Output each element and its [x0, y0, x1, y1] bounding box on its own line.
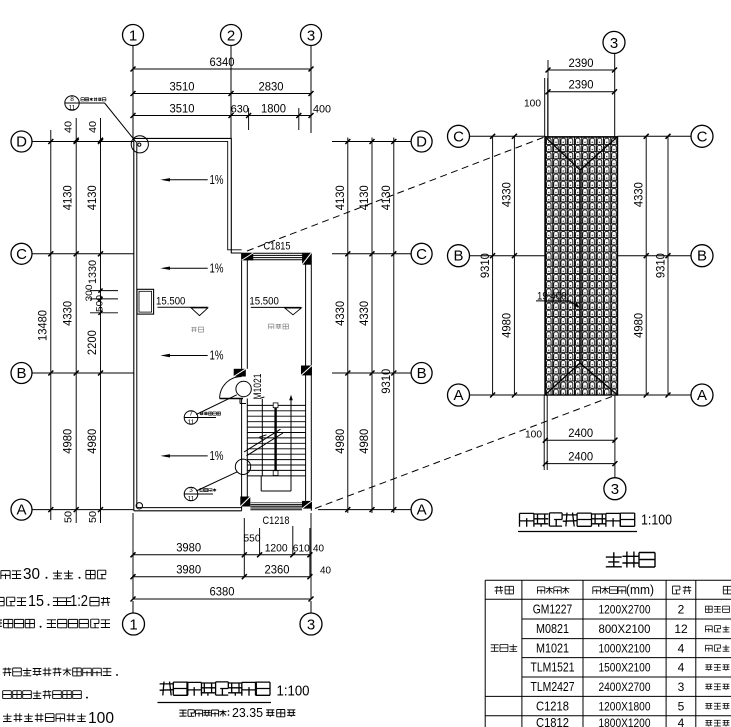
- svg-text:50: 50: [64, 511, 75, 523]
- axis circle A right-plan left: [448, 384, 470, 406]
- door-window table grid: [485, 579, 731, 581]
- svg-text:2390: 2390: [569, 58, 594, 70]
- svg-text:D: D: [416, 134, 427, 151]
- axis circle A (left): [11, 499, 32, 520]
- left dimension chain verticals: [50, 130, 52, 520]
- svg-text:2400: 2400: [568, 451, 593, 463]
- title: roof staircase plan (wuding loutijian pingmiantu): [160, 682, 175, 696]
- axis circle C right-plan right: [691, 125, 713, 147]
- detail target circle at door: [236, 381, 251, 396]
- svg-text:40: 40: [64, 121, 75, 133]
- axis circle D (right of left plan): [332, 141, 411, 143]
- svg-text:TLM2427: TLM2427: [531, 680, 575, 694]
- table title: door/window schedule (menchuangbiao): [606, 552, 622, 567]
- svg-text:4: 4: [678, 661, 685, 675]
- right plan top dims 2390: [547, 60, 549, 137]
- left sub-dim tick lines 1330/300/500: [90, 290, 118, 292]
- svg-text:40: 40: [313, 543, 324, 555]
- stair room left wall: [241, 253, 243, 369]
- svg-text:6380: 6380: [210, 587, 235, 599]
- svg-text:M1021: M1021: [252, 374, 264, 400]
- door M1021 leaf: [220, 398, 243, 400]
- svg-text:11: 11: [188, 495, 195, 502]
- svg-text:4980: 4980: [634, 313, 646, 338]
- roof parapet wall outline: [134, 138, 242, 253]
- stair landing outline: [260, 476, 262, 491]
- svg-text:M1021: M1021: [536, 641, 569, 655]
- column bottom-left: [240, 497, 250, 507]
- svg-text:100: 100: [524, 98, 541, 110]
- svg-text:B: B: [16, 365, 26, 382]
- column bottom-right: [302, 501, 312, 509]
- axis circle 3 (right plan top): [603, 31, 625, 53]
- svg-text:50: 50: [88, 511, 99, 523]
- bottom dim extension lines: [132, 513, 134, 599]
- svg-text:A: A: [453, 387, 463, 404]
- note line 1: [1, 571, 10, 580]
- slope arrow 1% (1): [168, 179, 208, 181]
- grid line 1 vertical: [132, 46, 134, 141]
- dimension row 3510/630/1800/400: [133, 115, 311, 117]
- svg-text:1200X2700: 1200X2700: [599, 602, 651, 616]
- slope arrow 1% (4): [168, 455, 208, 457]
- note line 2: [0, 597, 4, 605]
- svg-text:15: 15: [28, 593, 44, 610]
- svg-text:1330: 1330: [87, 260, 99, 284]
- svg-text:4330: 4330: [634, 182, 646, 207]
- svg-text:7: 7: [189, 411, 193, 418]
- svg-text:4130: 4130: [335, 185, 347, 210]
- right-side dim chain of left plan: [347, 138, 349, 514]
- axis circle C (left): [11, 243, 32, 264]
- svg-text:4130: 4130: [63, 185, 75, 210]
- svg-text:3980: 3980: [176, 543, 201, 555]
- svg-text:1:2: 1:2: [70, 593, 88, 610]
- grid line C: [32, 253, 134, 255]
- svg-text:1%: 1%: [210, 449, 224, 463]
- grid line 2 vertical: [230, 46, 232, 140]
- stair treads: [247, 404, 305, 406]
- detail callout 3/11: [184, 487, 198, 501]
- projection dashed line upper: [247, 137, 545, 251]
- stair room right wall: [305, 265, 307, 501]
- svg-text:1: 1: [129, 28, 137, 45]
- note line 3: [0, 620, 2, 628]
- svg-text:B: B: [697, 248, 707, 265]
- svg-text:4330: 4330: [335, 301, 347, 326]
- projection dashed line lower: [315, 397, 612, 509]
- axis circle 3 (bottom): [310, 601, 312, 613]
- roof hip lines: [545, 137, 580, 170]
- svg-text:1:100: 1:100: [641, 513, 672, 529]
- note line 5: [3, 691, 12, 699]
- svg-text:3980: 3980: [176, 564, 201, 576]
- axis circle B right-plan right: [691, 245, 713, 267]
- svg-text:100: 100: [525, 429, 542, 441]
- svg-text:1%: 1%: [210, 349, 224, 363]
- subtitle: floor area 23.35 sqm: [179, 710, 186, 716]
- table header texts: [495, 586, 503, 594]
- note line 4: [3, 668, 12, 676]
- svg-text:4980: 4980: [63, 429, 75, 454]
- svg-text:1500X2100: 1500X2100: [599, 661, 651, 675]
- window C1218 bottom wall: [250, 504, 302, 506]
- svg-text:3: 3: [307, 617, 315, 634]
- axis circle 1 (bottom): [132, 601, 134, 613]
- svg-text:GM1227: GM1227: [533, 602, 573, 616]
- svg-text:1200: 1200: [265, 543, 288, 555]
- table col1 group label putongmen: [491, 645, 499, 652]
- svg-text:4330: 4330: [502, 182, 514, 207]
- svg-text:15.500: 15.500: [156, 295, 185, 307]
- dimension row 6340: [133, 68, 311, 70]
- right plan right dim chain: [645, 136, 647, 395]
- svg-text:11: 11: [69, 104, 76, 111]
- svg-text:9310: 9310: [381, 369, 393, 394]
- svg-text:2400X2700: 2400X2700: [599, 680, 651, 694]
- svg-text:B: B: [453, 248, 463, 265]
- bottom dim row 3980/550/1200/610/40: [133, 554, 311, 556]
- svg-text:D: D: [16, 134, 27, 151]
- svg-text:630: 630: [231, 104, 249, 116]
- svg-text:A: A: [16, 502, 26, 519]
- svg-text:4: 4: [678, 641, 685, 655]
- svg-text:800X2100: 800X2100: [599, 622, 651, 636]
- title: staircase roof plan (loutijian wuding pingmiantu): [520, 513, 534, 526]
- svg-text:9310: 9310: [480, 253, 492, 278]
- door M1021 swing arc: [220, 377, 242, 399]
- dimension row 3510/2830: [133, 93, 311, 95]
- wall flue box: [137, 289, 154, 314]
- svg-text:5: 5: [678, 699, 685, 713]
- svg-text:3: 3: [678, 680, 685, 694]
- axis grid circle 1 (top): [123, 25, 144, 46]
- axis circle C (right of left plan): [332, 253, 411, 255]
- svg-text:C: C: [16, 246, 27, 263]
- svg-text:1:100: 1:100: [277, 684, 310, 700]
- axis circle C right-plan left: [448, 125, 470, 147]
- svg-text:4330: 4330: [359, 301, 371, 326]
- stair direction line up-arrow: [290, 400, 292, 476]
- svg-text:2: 2: [678, 602, 685, 616]
- slope arrow 1% (2): [168, 267, 208, 269]
- svg-text:300: 300: [84, 285, 95, 302]
- svg-text:4980: 4980: [502, 313, 514, 338]
- axis grid circle 3 (top): [301, 25, 322, 46]
- svg-text:500: 500: [95, 295, 106, 312]
- svg-text:2390: 2390: [569, 80, 594, 92]
- svg-text:3: 3: [610, 35, 618, 52]
- column mid-right at B: [301, 366, 312, 376]
- stair center railing: [274, 405, 276, 474]
- svg-text:3: 3: [189, 487, 193, 494]
- svg-text:1%: 1%: [210, 261, 224, 275]
- roof ridge line: [579, 170, 581, 363]
- svg-text:3: 3: [611, 481, 619, 498]
- svg-text:30: 30: [23, 566, 40, 583]
- svg-text:13480: 13480: [38, 310, 50, 341]
- axis circle B right-plan left: [448, 245, 470, 267]
- svg-text:M0821: M0821: [536, 622, 569, 636]
- column mid-left at B: [234, 369, 246, 377]
- svg-text:3: 3: [307, 28, 315, 45]
- svg-text:1%: 1%: [210, 173, 224, 187]
- svg-text:1200X1800: 1200X1800: [599, 699, 651, 713]
- svg-text:1800: 1800: [261, 104, 286, 116]
- svg-text:4980: 4980: [359, 429, 371, 454]
- roof drain circle top-left: [131, 136, 148, 153]
- window C1815 top wall: [242, 252, 312, 254]
- grid line A: [32, 509, 134, 511]
- svg-text:TLM1521: TLM1521: [531, 661, 575, 675]
- svg-text:A: A: [697, 387, 707, 404]
- grid line B: [32, 372, 134, 374]
- svg-text:A: A: [417, 502, 427, 519]
- svg-text:4330: 4330: [63, 301, 75, 326]
- svg-text:15.500: 15.500: [249, 295, 278, 307]
- svg-text:11: 11: [188, 419, 195, 426]
- svg-text:23.35: 23.35: [232, 705, 263, 720]
- grid line 3 vertical: [310, 46, 312, 134]
- svg-text:610: 610: [293, 543, 310, 555]
- svg-text:8: 8: [70, 96, 74, 103]
- detail target circle at stair bottom: [235, 459, 250, 474]
- svg-text:2360: 2360: [265, 564, 290, 576]
- axis circle A right-plan right: [691, 384, 713, 406]
- axis grid circle 2 (top): [221, 25, 242, 46]
- svg-text:40: 40: [88, 121, 99, 133]
- svg-text:2: 2: [227, 28, 235, 45]
- svg-text:9310: 9310: [656, 253, 668, 278]
- svg-text:B: B: [417, 365, 427, 382]
- room label roof (wuding): [191, 327, 196, 332]
- svg-text:C: C: [416, 246, 427, 263]
- svg-text:4: 4: [678, 716, 685, 727]
- svg-text:4980: 4980: [87, 429, 99, 454]
- svg-text:550: 550: [244, 533, 261, 545]
- svg-text:4980: 4980: [335, 429, 347, 454]
- right plan bottom dims: [543, 395, 545, 470]
- axis circle B (right of left plan): [332, 372, 411, 374]
- roof hip lines bottom: [545, 363, 580, 395]
- axis circle B (left): [11, 363, 32, 384]
- svg-text:3510: 3510: [170, 104, 195, 116]
- note line 6: [3, 714, 12, 722]
- svg-text:C: C: [697, 128, 708, 145]
- svg-text:400: 400: [313, 104, 331, 116]
- detail callout 8/11: [65, 96, 79, 110]
- roof drain circle bottom-left: [136, 503, 142, 509]
- svg-text:(mm): (mm): [626, 583, 654, 597]
- stair break line: [244, 429, 281, 452]
- svg-text:C1812: C1812: [536, 716, 569, 727]
- bottom dim row 3980/2360/40: [133, 576, 311, 578]
- svg-text:6340: 6340: [210, 57, 235, 69]
- svg-text:C1218: C1218: [263, 515, 290, 527]
- column top-right: [302, 253, 311, 265]
- svg-text:1800X1200: 1800X1200: [599, 716, 651, 727]
- svg-text:4130: 4130: [359, 185, 371, 210]
- right plan left dim chain: [492, 136, 494, 395]
- svg-text:C: C: [453, 128, 464, 145]
- svg-text:12: 12: [674, 622, 688, 636]
- detail callout 7/11: [184, 411, 198, 425]
- svg-text:C1218: C1218: [536, 699, 569, 713]
- svg-text:2830: 2830: [259, 82, 284, 94]
- slope arrow 1% (3): [168, 355, 208, 357]
- svg-text:C1815: C1815: [264, 240, 291, 252]
- svg-text:40: 40: [320, 564, 331, 576]
- svg-text:100: 100: [88, 710, 114, 727]
- axis circle 3 (right plan bottom): [604, 478, 626, 500]
- stair direction line left flight: [261, 399, 263, 476]
- grid line D: [32, 141, 134, 143]
- svg-text:4130: 4130: [87, 185, 99, 210]
- axis circle A (right of left plan): [318, 509, 411, 511]
- bottom dim row 6380: [133, 598, 311, 600]
- svg-text:1000X2100: 1000X2100: [599, 641, 651, 655]
- svg-text:1: 1: [129, 617, 137, 634]
- axis circle D (left): [11, 131, 32, 152]
- svg-text:2200: 2200: [87, 330, 99, 355]
- room label stair room (loutifang): [268, 324, 274, 329]
- left dim ticks: [48, 139, 53, 144]
- svg-text:2400: 2400: [568, 428, 593, 440]
- column top-left: [242, 253, 254, 260]
- roof plan tile hatch: [545, 137, 618, 395]
- svg-text:3510: 3510: [170, 82, 195, 94]
